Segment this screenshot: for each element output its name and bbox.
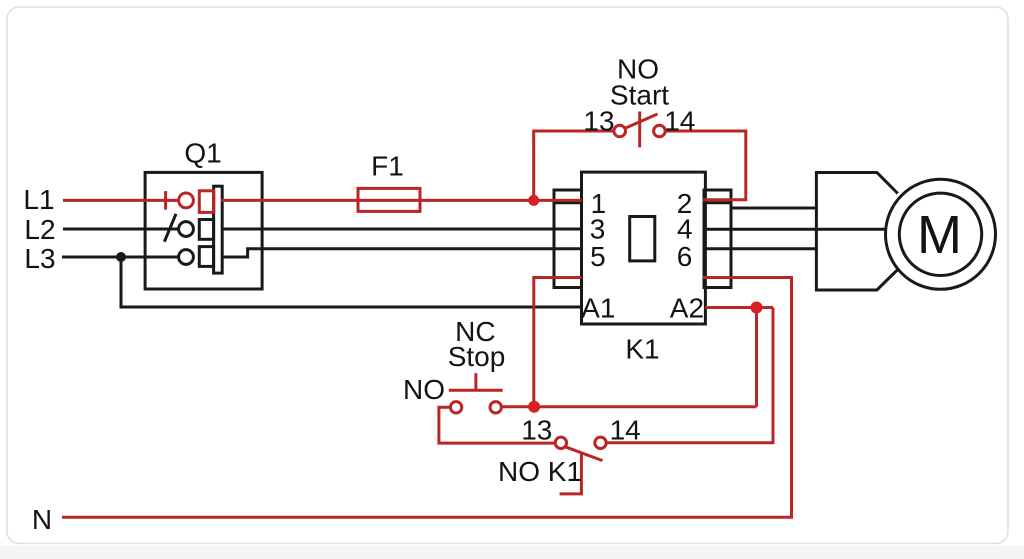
- svg-text:NO: NO: [403, 374, 445, 405]
- svg-text:A2: A2: [670, 293, 704, 324]
- svg-text:Stop: Stop: [448, 341, 506, 372]
- svg-text:5: 5: [590, 241, 606, 272]
- svg-text:6: 6: [677, 241, 693, 272]
- svg-text:N: N: [32, 504, 52, 535]
- svg-text:NO K1: NO K1: [498, 456, 582, 487]
- svg-text:L3: L3: [24, 243, 55, 274]
- svg-text:M: M: [917, 205, 962, 265]
- svg-text:13: 13: [583, 106, 614, 137]
- svg-text:F1: F1: [371, 151, 404, 182]
- svg-text:13: 13: [521, 415, 552, 446]
- svg-text:L2: L2: [24, 214, 55, 245]
- svg-text:14: 14: [610, 415, 641, 446]
- svg-text:A1: A1: [581, 293, 615, 324]
- svg-text:Start: Start: [610, 80, 669, 111]
- svg-text:L1: L1: [23, 184, 54, 215]
- svg-text:Q1: Q1: [184, 138, 221, 169]
- svg-text:K1: K1: [625, 334, 659, 365]
- svg-text:14: 14: [664, 106, 695, 137]
